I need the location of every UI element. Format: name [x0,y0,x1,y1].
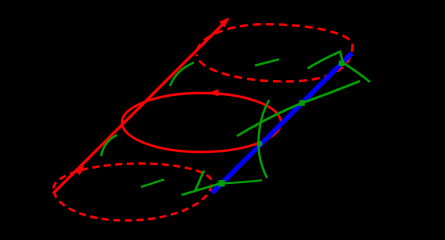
green curve leaving top dot [343,63,370,82]
red orbit line [53,19,228,194]
arrow on middle ellipse (pointing left) [208,89,219,96]
green kinked curve into bottom dot [195,171,204,192]
green line into bottom dot from lower left [182,184,220,195]
blue orbit segment [212,53,352,193]
green dot 1 [339,60,345,66]
solid section ellipse middle [122,93,281,152]
red line arrowhead top [219,18,229,28]
green dot 3 [257,141,262,146]
green curve into top dot [308,52,343,69]
green dot 4 [218,180,224,186]
green arrowhead at bottom dot (pointing left) [216,181,221,187]
green arc along red line lower [101,135,117,156]
red line arrowhead middle [75,166,85,176]
green S-curve through third dot [258,100,269,178]
green dot 2 [299,100,305,106]
long green manifold through second dot [237,81,360,136]
dashed section ellipse bottom-left [54,164,212,221]
green manifold stub in bottom ellipse [141,180,164,188]
green manifold stub in top ellipse [255,59,279,65]
green arc along red line upper [170,63,194,87]
green horizontal manifold right of bottom dot [221,180,262,183]
dashed section ellipse top-right [197,24,353,81]
